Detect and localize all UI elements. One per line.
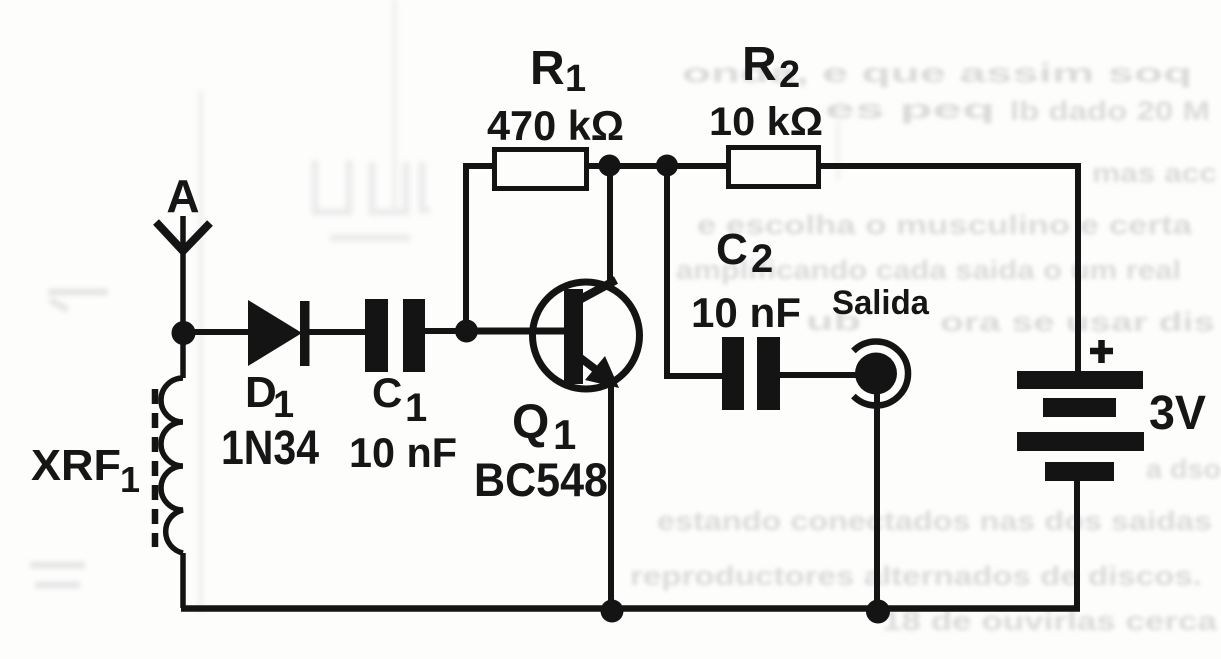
svg-text:1: 1	[405, 386, 427, 430]
svg-text:2: 2	[779, 54, 800, 96]
svg-text:C: C	[716, 225, 748, 274]
svg-text:3V: 3V	[1149, 387, 1206, 440]
wire collector	[607, 166, 613, 285]
node emitter bottom junction dot	[601, 600, 624, 623]
svg-text:10 kΩ: 10 kΩ	[709, 100, 823, 144]
svg-text:R: R	[530, 42, 565, 95]
svg-text:BC548: BC548	[474, 453, 608, 506]
svg-text:1: 1	[120, 459, 140, 500]
wire R2 to battery positive	[819, 166, 1078, 372]
antenna A	[156, 216, 210, 334]
battery B1 3V	[1017, 371, 1144, 481]
svg-text:estando conectados nas dos sai: estando conectados nas dos saidas	[657, 506, 1212, 536]
resistor R1	[495, 150, 587, 189]
node collector junction dot	[599, 155, 621, 177]
wire jack to bottom	[874, 394, 880, 611]
svg-text:lb dado 20 M: lb dado 20 M	[1010, 96, 1210, 126]
svg-text:10 nF: 10 nF	[691, 289, 801, 336]
wire diode to C1	[309, 329, 366, 335]
wire collector node to C2 node	[609, 163, 667, 169]
wire battery negative to bottom	[1074, 481, 1080, 608]
wire C1 to base node	[425, 328, 470, 334]
wire C2 node down to C2	[667, 166, 724, 376]
resistor R2	[729, 148, 819, 187]
battery positive sign	[1090, 340, 1113, 363]
svg-text:A: A	[166, 170, 199, 222]
node A junction dot	[172, 321, 196, 345]
svg-text:XRF: XRF	[31, 441, 121, 490]
svg-text:D: D	[245, 368, 277, 417]
wire emitter	[608, 384, 614, 611]
svg-text:C: C	[372, 369, 402, 416]
svg-text:1: 1	[565, 58, 586, 100]
node jack bottom junction dot	[866, 600, 890, 624]
transistor Q1	[533, 280, 640, 389]
capacitor C2	[722, 337, 780, 410]
node base junction dot	[455, 320, 478, 343]
wire C2 node to R2	[667, 163, 728, 169]
svg-text:a dso: a dso	[1146, 454, 1221, 484]
node C2 junction dot	[656, 155, 678, 177]
inductor XRF1	[155, 334, 183, 608]
svg-text:10 nF: 10 nF	[349, 429, 457, 476]
svg-text:1: 1	[553, 411, 576, 458]
svg-text:e escolha o musculino e certa: e escolha o musculino e certa	[697, 210, 1193, 240]
svg-text:2: 2	[751, 237, 773, 281]
diode D1	[248, 300, 310, 366]
svg-text:Q: Q	[512, 396, 549, 449]
svg-text:1: 1	[273, 384, 294, 426]
wire base node to R1	[466, 166, 494, 331]
svg-text:Salida: Salida	[832, 284, 930, 322]
bottom wire	[181, 605, 1080, 612]
svg-text:R: R	[742, 38, 777, 91]
wire C2 to jack	[780, 372, 858, 378]
svg-text:mas acc: mas acc	[1092, 158, 1217, 188]
wire node A to diode	[183, 329, 252, 335]
wire R1 to collector node	[589, 163, 612, 169]
svg-text:reproductores alternados de di: reproductores alternados de discos.	[630, 561, 1202, 591]
capacitor C1	[365, 299, 425, 372]
output jack Salida	[853, 342, 908, 406]
svg-text:470 kΩ: 470 kΩ	[487, 102, 624, 149]
svg-text:1N34: 1N34	[221, 422, 319, 475]
svg-text:es peq: es peq	[825, 94, 995, 124]
wire base	[460, 328, 564, 335]
